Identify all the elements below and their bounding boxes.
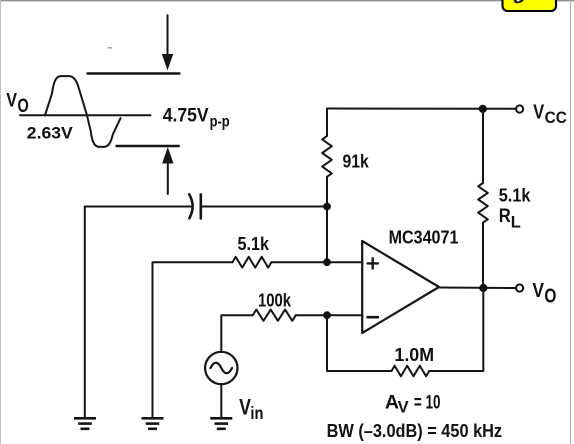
svg-text:V: V bbox=[239, 395, 251, 420]
svg-text:O: O bbox=[544, 285, 556, 307]
svg-text:= 10: = 10 bbox=[414, 392, 441, 413]
terminal Vcc open circle bbox=[516, 105, 523, 112]
up arrow head bbox=[163, 149, 173, 164]
svg-text:2.63V: 2.63V bbox=[27, 124, 73, 142]
waveform sine curve bbox=[45, 76, 121, 147]
svg-text:CC: CC bbox=[545, 108, 567, 127]
frame border left bbox=[0, 0, 2, 444]
svg-text:R: R bbox=[499, 205, 511, 227]
svg-text:V: V bbox=[532, 280, 544, 302]
down arrow shaft bbox=[167, 15, 169, 56]
svg-text:BW (–3.0dB) = 450 kHz: BW (–3.0dB) = 450 kHz bbox=[327, 421, 503, 441]
capacitor C1 straight plate bbox=[200, 194, 203, 218]
svg-text:91k: 91k bbox=[343, 150, 370, 171]
resistor RL 5.1k load (vertical) bbox=[478, 109, 488, 288]
resistor R1 91k (vertical) bbox=[322, 109, 332, 207]
svg-text:p-p: p-p bbox=[210, 114, 230, 131]
wire: top rail bbox=[327, 108, 515, 110]
svg-text:1.0M: 1.0M bbox=[394, 344, 434, 365]
svg-text:5.1k: 5.1k bbox=[499, 184, 531, 205]
ground symbol 2 bbox=[142, 418, 164, 429]
capacitor C1 curved plate bbox=[189, 194, 192, 218]
ground symbol 3 bbox=[210, 418, 232, 429]
resistor R4 1.0M feedback bbox=[392, 366, 430, 377]
svg-text:V: V bbox=[533, 101, 545, 123]
wire: feedback up to output node E bbox=[429, 288, 483, 371]
svg-text:V: V bbox=[6, 89, 17, 111]
svg-text:4.75V: 4.75V bbox=[163, 105, 209, 127]
junction node: cap/91k bbox=[323, 203, 331, 211]
op-amp U1 triangle bbox=[362, 241, 439, 333]
wire: middle branch ground riser bbox=[153, 262, 233, 417]
op-amp minus input sign bbox=[368, 316, 378, 319]
frame border top bbox=[0, 0, 574, 2]
wire: node A to capacitor left plate bbox=[85, 206, 192, 208]
svg-text:100k: 100k bbox=[258, 290, 292, 311]
waveform bottom envelope line bbox=[117, 145, 179, 147]
terminal Vo open circle bbox=[516, 284, 523, 291]
wire: Vin to ground bbox=[220, 384, 222, 417]
op-amp plus input sign bbox=[368, 258, 378, 268]
junction node: plus input bbox=[323, 258, 331, 266]
junction node: output bbox=[479, 284, 487, 292]
wire: R2 to plus input node C bbox=[272, 261, 363, 263]
up arrow shaft bbox=[167, 161, 169, 194]
svg-text:MC34071: MC34071 bbox=[389, 227, 459, 248]
ground symbol 1 bbox=[74, 418, 96, 429]
wire: 91k junction to plus node bbox=[326, 207, 328, 263]
wire: feedback from minus node D down and right bbox=[327, 315, 392, 371]
wire: capacitor right plate to node B junction bbox=[201, 206, 327, 208]
waveform top envelope line bbox=[88, 72, 180, 74]
svg-text:5.1k: 5.1k bbox=[238, 233, 270, 254]
wire: left branch down to ground bbox=[84, 207, 86, 418]
waveform axis line bbox=[20, 114, 151, 116]
wire: R3 to minus input node D bbox=[296, 314, 363, 316]
svg-text:in: in bbox=[250, 403, 263, 423]
scan speck bbox=[108, 47, 113, 49]
junction node: Vcc rail bbox=[479, 105, 487, 113]
down arrow head bbox=[163, 55, 173, 69]
frame border right bbox=[570, 0, 572, 444]
wire: op-amp output bbox=[439, 287, 515, 290]
source V1 sine glyph bbox=[211, 363, 233, 374]
yellow sticky button top-right bbox=[503, 0, 557, 11]
svg-text:V: V bbox=[398, 398, 409, 416]
wire: Vin source up to 100k bbox=[221, 315, 253, 352]
junction node: minus input bbox=[323, 311, 331, 319]
svg-text:O: O bbox=[18, 95, 29, 117]
resistor R3 100k (inverting input) bbox=[253, 310, 296, 321]
resistor R2 5.1k (noninverting input) bbox=[233, 257, 272, 268]
svg-text:L: L bbox=[511, 212, 521, 231]
source V1 Vin circle bbox=[205, 352, 237, 384]
